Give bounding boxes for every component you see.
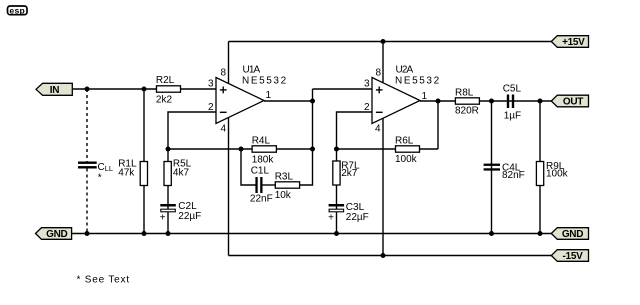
node gnd R1L	[142, 231, 147, 236]
wire -15V rail	[229, 255, 553, 257]
resistor R1L	[118, 158, 147, 185]
node -15V U2A pin4	[381, 253, 386, 258]
svg-text:4k7: 4k7	[173, 168, 190, 179]
wire R5L C2L column	[167, 149, 169, 234]
wire GND rail	[72, 233, 552, 235]
resistor R3L	[275, 171, 300, 201]
wire R1L column	[143, 89, 145, 234]
wire U2A output to R8L	[420, 100, 455, 102]
svg-text:OUT: OUT	[563, 97, 583, 108]
node gnd C4L	[489, 231, 494, 236]
wire U1A pin 4 to -15V rail	[228, 117, 230, 256]
svg-text:U1A: U1A	[243, 64, 261, 75]
svg-text:47k: 47k	[118, 168, 135, 179]
svg-text:180k: 180k	[252, 154, 275, 165]
wire R7L C3L column	[336, 149, 338, 234]
wire C1L to R3L	[262, 184, 275, 186]
node C5L left	[489, 99, 494, 104]
node GND left tag	[36, 228, 72, 241]
svg-text:NE5532: NE5532	[242, 76, 288, 87]
svg-text:10k: 10k	[275, 190, 292, 201]
node gnd C2L	[166, 231, 171, 236]
wire C1L R3L branch	[241, 149, 256, 185]
svg-text:R8L: R8L	[455, 87, 474, 98]
wire top +15V rail	[229, 41, 553, 43]
capacitor C5L	[503, 84, 522, 122]
wire R3L to branch right	[300, 149, 313, 185]
svg-text:1: 1	[266, 90, 272, 101]
svg-text:R6L: R6L	[395, 135, 414, 146]
capacitor CLL	[78, 162, 113, 184]
resistor R2L	[156, 75, 181, 105]
svg-text:R2L: R2L	[156, 75, 175, 86]
wire U2A pin 4 to -15V rail	[382, 118, 384, 256]
node U2A pin2	[334, 147, 339, 152]
svg-text:esp: esp	[9, 5, 25, 15]
svg-text:-15V: -15V	[563, 251, 584, 262]
node input junction R1L	[142, 87, 147, 92]
wire dashed CLL lower	[86, 169, 88, 234]
svg-text:100k: 100k	[546, 168, 569, 179]
svg-text:2: 2	[364, 102, 370, 113]
capacitor C1L	[250, 166, 273, 205]
wire U2A pin 3 row	[313, 88, 373, 90]
node IN tag	[36, 83, 72, 96]
svg-text:820R: 820R	[455, 106, 479, 117]
node U1A fb left	[166, 147, 171, 152]
svg-text:+: +	[160, 212, 166, 223]
node gnd R9L	[538, 231, 543, 236]
node U2A pin8 rail	[381, 39, 386, 44]
node branch left	[239, 147, 244, 152]
svg-text:4: 4	[375, 124, 381, 135]
wire U2A feedback row R6L	[337, 148, 439, 150]
svg-text:+15V: +15V	[562, 37, 585, 48]
wire dashed CLL upper	[86, 89, 88, 162]
wire U1A pin 8 to +15V rail	[228, 42, 230, 86]
svg-text:2: 2	[208, 102, 214, 113]
capacitor C4L	[484, 162, 525, 181]
node C5L right	[538, 99, 543, 104]
wire U1A pin 2 to feedback node	[168, 112, 216, 149]
resistor R8L	[455, 87, 479, 116]
wire U1A output	[264, 100, 313, 102]
wire C4L column	[491, 101, 493, 234]
svg-text:3: 3	[364, 79, 370, 90]
wire R9L column	[539, 101, 541, 234]
node -15V tag	[551, 250, 588, 263]
node U2A output	[436, 99, 441, 104]
resistor R6L	[395, 135, 420, 165]
svg-text:22nF: 22nF	[250, 194, 273, 205]
node U1A output	[310, 99, 315, 104]
svg-text:82nF: 82nF	[502, 170, 525, 181]
svg-text:3: 3	[208, 79, 214, 90]
node fb right	[310, 147, 315, 152]
resistor R5L	[164, 158, 192, 185]
svg-text:*: *	[98, 172, 102, 183]
svg-text:2k2: 2k2	[156, 94, 173, 105]
wire U2A pin 8 to +15V rail	[382, 42, 384, 85]
svg-text:IN: IN	[50, 85, 59, 96]
node +15V tag	[551, 36, 588, 49]
wire output row R8L to OUT	[479, 100, 552, 102]
svg-text:R4L: R4L	[252, 135, 271, 146]
wire U2A pin 2 to node	[337, 112, 373, 149]
svg-text:1: 1	[422, 91, 428, 102]
svg-text:U2A: U2A	[396, 64, 414, 75]
svg-text:NE5532: NE5532	[395, 76, 441, 87]
svg-text:+: +	[328, 212, 334, 223]
capacitor C2L	[160, 201, 202, 223]
resistor R4L	[252, 135, 277, 165]
wire node J2 vertical	[437, 101, 439, 149]
svg-text:8: 8	[220, 68, 226, 79]
op-amp U2A	[364, 64, 441, 134]
node gnd dashed	[85, 231, 90, 236]
svg-text:22µF: 22µF	[178, 211, 201, 222]
svg-text:8: 8	[375, 68, 381, 79]
capacitor C3L	[328, 202, 369, 223]
node GND right tag	[551, 228, 588, 241]
svg-text:C1L: C1L	[251, 166, 270, 177]
wire input row IN to U1A pin 3	[73, 88, 216, 90]
node gnd C3L	[334, 231, 339, 236]
svg-text:2k7: 2k7	[341, 168, 358, 179]
svg-text:* See Text: * See Text	[77, 274, 130, 285]
op-amp U1A	[208, 64, 288, 134]
svg-text:100k: 100k	[395, 154, 418, 165]
wire node J1 vertical	[312, 89, 314, 149]
svg-text:22µF: 22µF	[346, 212, 369, 223]
svg-text:1µF: 1µF	[504, 110, 521, 121]
svg-text:GND: GND	[562, 229, 583, 240]
resistor R7L	[333, 160, 360, 185]
svg-text:4: 4	[220, 124, 226, 135]
resistor R9L	[536, 161, 568, 186]
node OUT tag	[551, 95, 588, 108]
svg-text:C5L: C5L	[503, 84, 522, 95]
ESP logo	[8, 5, 28, 15]
svg-text:GND: GND	[46, 229, 67, 240]
wire U1A feedback row	[168, 148, 313, 150]
node input junction dashed	[85, 87, 90, 92]
svg-text:R3L: R3L	[275, 171, 294, 182]
